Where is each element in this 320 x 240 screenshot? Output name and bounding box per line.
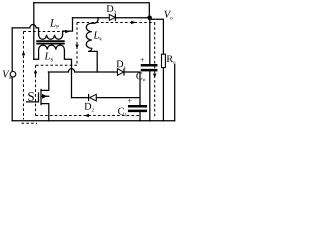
wire left vertical from top rail to lower winding (33, 3, 35, 60)
dashed arrow down x35.5 (34, 72, 37, 76)
wire left input column (11, 28, 13, 121)
node Vo dot (147, 15, 152, 20)
capacitor Co plates (142, 65, 156, 70)
inductor Lk vertical coil (86, 18, 98, 72)
transistor S mosfet (27, 72, 49, 121)
wire drain to D1 with hop (48, 69, 140, 106)
label S (28, 92, 34, 101)
wire D2 line (72, 97, 141, 99)
core bar upper (37, 40, 64, 42)
wire top rail (34, 3, 150, 18)
diode D1 (117, 68, 124, 75)
wire bottom rail (12, 120, 175, 122)
label D2 (84, 103, 93, 111)
inductor Ls bottom winding (34, 45, 72, 98)
transistor S arrow (42, 94, 47, 99)
dashed arrow down right loop (153, 74, 156, 78)
label plus Co (140, 58, 144, 62)
dashed arrow right y22.5 (131, 21, 136, 25)
diode D2 (89, 94, 97, 101)
dashed arrow right top loop (65, 30, 70, 33)
dashed arrow up left loop (22, 51, 25, 55)
label Vo (164, 11, 172, 20)
label D1 (116, 61, 125, 69)
wire output node rail with D3 gap (73, 18, 164, 54)
wire Co leads (149, 18, 151, 121)
label Lp (50, 19, 59, 28)
label C1 (118, 108, 127, 117)
dashed loop mid horizontal y65 (36, 64, 77, 66)
source Vin terminal circle (10, 71, 16, 77)
label plus C1 (128, 99, 132, 103)
label Vin (3, 70, 12, 78)
label Ro (167, 55, 176, 63)
diode D3 (109, 14, 115, 21)
dashed arrow down x77 (75, 45, 78, 49)
label D3 (107, 5, 116, 14)
resistor R bottom lead (162, 68, 164, 121)
dashed loop top horizontal over Lp (24, 31, 65, 33)
core bar lower (37, 43, 64, 45)
dashed loop inner bottom horizontal (36, 115, 141, 117)
dashed loop left vertical (23, 32, 25, 120)
label Ls (44, 53, 52, 62)
capacitor C1 plates (129, 106, 146, 111)
resistor R body (162, 54, 166, 67)
label Co (136, 72, 145, 81)
dashed loop inner vertical x35.5 (35, 65, 37, 115)
label Lk (93, 32, 101, 41)
dashed arrow left bottom y115.5 (84, 114, 89, 117)
dashed loop mid vertical x77 (76, 23, 78, 65)
inductor Lp top winding (39, 35, 63, 39)
wire Lp right terminal (63, 18, 73, 35)
dashed loop top horizontal y22.5 (77, 22, 155, 24)
wire right border stub (174, 65, 176, 121)
dashed loop left bottom horizontal (22, 122, 38, 124)
wire C1 bottom lead (139, 112, 141, 121)
wire input top with hop over vertical (12, 25, 38, 35)
dashed loop right vertical (154, 23, 156, 119)
